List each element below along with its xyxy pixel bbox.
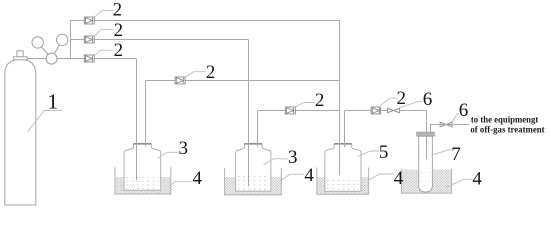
svg-text:of off-gas treatment: of off-gas treatment — [470, 125, 545, 136]
svg-text:5: 5 — [379, 142, 389, 163]
tube 7 bubbles — [422, 168, 431, 186]
leader 2 (bottle2 outlet valve) — [296, 103, 315, 107]
pipe: bottle 2 outlet riser — [257, 111, 259, 147]
pressure regulator stems — [38, 40, 63, 59]
svg-text:2: 2 — [206, 62, 216, 83]
svg-text:3: 3 — [288, 147, 298, 168]
gas washing bottle 3 (first) — [124, 144, 161, 190]
leader 2 row1 — [94, 11, 113, 18]
water bath 1 stipple — [115, 177, 170, 194]
leader 4 (bath3) — [369, 174, 393, 180]
water bath 1 walls — [115, 167, 171, 194]
water bath 4 walls — [401, 169, 451, 193]
leader 5 — [357, 151, 379, 157]
needle valve 6 (second) — [440, 122, 452, 127]
leader 1 — [28, 111, 63, 132]
water bath 2 stipple — [225, 177, 281, 195]
svg-text:3: 3 — [179, 138, 189, 159]
svg-text:2: 2 — [315, 90, 325, 111]
svg-text:2: 2 — [113, 0, 123, 21]
vessel 5 liquid dashes — [327, 180, 359, 188]
valve 2 (bottle 1 outlet) — [175, 77, 185, 84]
water bath 3 stipple — [317, 177, 368, 194]
svg-text:2: 2 — [114, 20, 124, 41]
cylinder neck — [17, 51, 23, 57]
svg-text:1: 1 — [47, 89, 58, 113]
vessel 5 collar — [334, 143, 352, 145]
valve 2 (bottle 2 outlet) — [285, 107, 295, 114]
bottle 2 liquid dashes — [238, 177, 269, 190]
leader 6 (second) — [452, 114, 459, 123]
leader 2 (vessel5 outlet valve) — [380, 98, 396, 105]
water bath 3 walls — [317, 168, 369, 195]
bottle 2 collar — [245, 143, 263, 145]
pressure gauge left — [32, 37, 43, 48]
pipe: regulator to valve row 3 — [27, 58, 136, 60]
pipe: branch 3 down into bottle 1 — [136, 59, 138, 181]
leader 6 (first) — [400, 101, 423, 107]
leader 3 (first) — [158, 152, 179, 158]
tube 7 — [419, 136, 433, 192]
leader 4 (bath2) — [280, 174, 304, 181]
pipe: tube 7 inlet — [426, 111, 428, 160]
svg-text:6: 6 — [459, 100, 469, 121]
valve 2 (row 2) — [84, 36, 94, 43]
svg-text:4: 4 — [472, 169, 482, 190]
leader 7 — [432, 150, 452, 155]
pipe: manifold vertical — [70, 21, 72, 59]
vessel 5 — [325, 144, 361, 191]
pipe: bottle 1 outlet line — [146, 80, 340, 82]
tube 7 cap — [417, 132, 435, 136]
valve 2 (vessel 5 outlet) — [371, 107, 380, 114]
svg-text:4: 4 — [304, 165, 314, 186]
leader 2 row2 — [95, 30, 114, 36]
svg-text:7: 7 — [451, 144, 461, 165]
pipe: branch 1 down to vessel 5 — [339, 21, 341, 176]
water bath 4 stipple — [402, 170, 451, 194]
bottle 1 collar — [134, 143, 152, 145]
svg-text:4: 4 — [394, 168, 404, 189]
gas washing bottle 3 (second) — [236, 144, 271, 191]
leader 2 (bottle1 outlet valve) — [185, 72, 206, 78]
svg-text:2: 2 — [114, 40, 124, 61]
leader 2 row3 — [95, 50, 114, 55]
valve 2 (row 1) — [84, 17, 94, 24]
leader 4 (bath4) — [446, 179, 472, 187]
svg-text:2: 2 — [397, 88, 407, 109]
pipe: bottle 1 outlet riser — [145, 81, 147, 147]
bottle 1 liquid dashes — [127, 178, 159, 189]
water bath 2 walls — [225, 168, 282, 195]
gas cylinder 1 — [5, 60, 36, 206]
pipe: tube 7 outlet and off-gas line — [431, 125, 470, 134]
needle valve 6 (first) — [387, 108, 399, 113]
cylinder flange — [13, 57, 27, 60]
regulator body — [46, 53, 57, 64]
pipe: branch 1 top — [71, 20, 340, 22]
pipe: vessel 5 outlet stub — [344, 111, 346, 148]
pipe: bottle 2 outlet line to tube — [258, 110, 340, 112]
pipe: branch 2 down into bottle 2 — [248, 40, 250, 187]
valve 2 (row 3) — [84, 55, 94, 62]
leader 4 (bath1) — [169, 182, 193, 187]
pressure gauge right — [57, 34, 68, 45]
svg-text:4: 4 — [193, 168, 203, 189]
leader 3 (second) — [264, 159, 288, 165]
svg-text:6: 6 — [423, 89, 433, 110]
pipe: branch 2 — [71, 39, 249, 41]
